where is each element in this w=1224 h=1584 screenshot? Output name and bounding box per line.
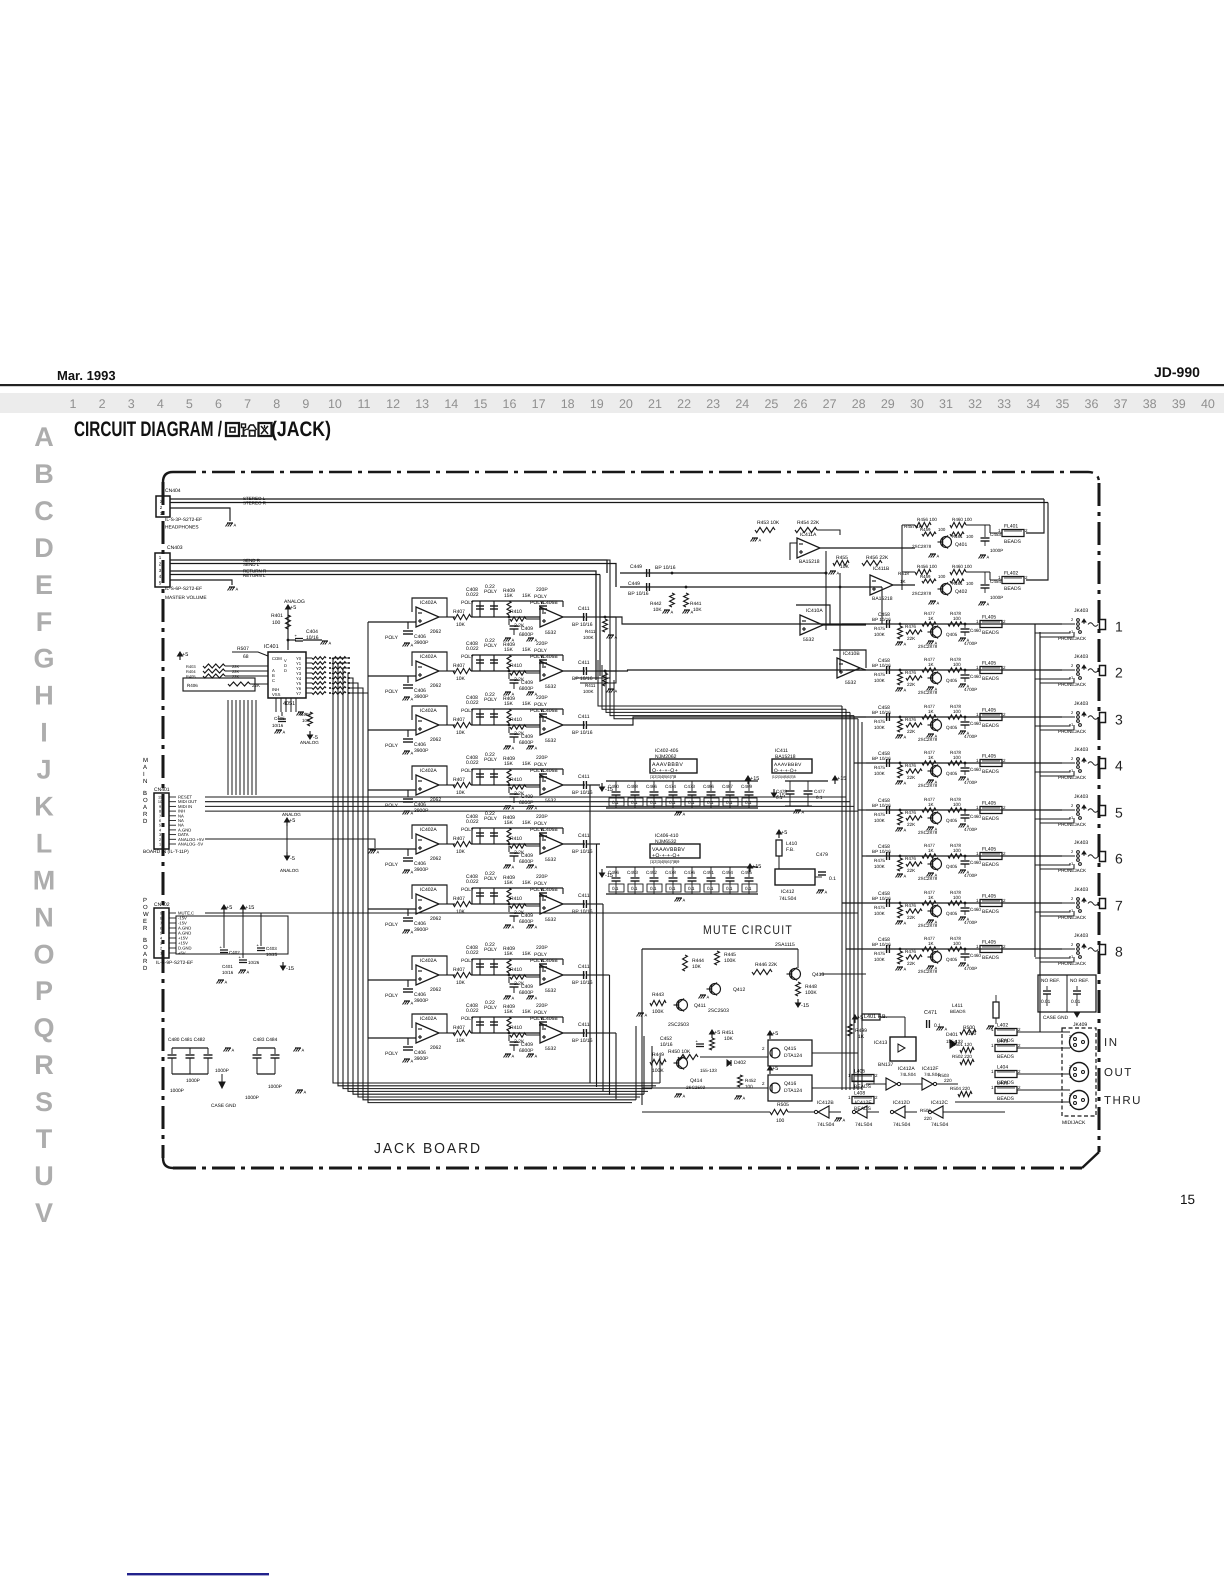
svg-text:26: 26 [794,397,808,411]
svg-text:1000P: 1000P [245,1095,259,1101]
svg-text:6: 6 [215,397,222,411]
svg-text:A: A [232,1048,235,1053]
svg-text:32: 32 [968,397,982,411]
svg-text:L: L [36,829,53,859]
svg-text:38: 38 [1143,397,1157,411]
svg-text:W: W [143,911,149,918]
svg-text:R456 22K: R456 22K [866,555,889,561]
svg-text:A: A [691,610,694,615]
svg-text:FL402: FL402 [1004,571,1018,577]
svg-text:10/25: 10/25 [266,952,278,957]
svg-text:1000P: 1000P [215,1068,229,1074]
svg-text:A: A [377,850,380,855]
svg-text:1000P: 1000P [990,595,1003,600]
svg-text:3: 3 [128,397,135,411]
svg-text:1: 1 [159,843,161,847]
svg-text:R450 10K: R450 10K [668,1049,691,1055]
svg-text:IC412B: IC412B [817,1100,834,1106]
svg-text:IC411A: IC411A [800,532,817,538]
svg-text:A: A [683,1094,686,1099]
svg-text:39: 39 [1172,397,1186,411]
svg-text:3: 3 [159,833,161,837]
svg-text:1: 1 [160,952,162,956]
svg-text:A: A [987,555,990,560]
svg-text:10/26: 10/26 [248,960,260,965]
svg-text:74LS04: 74LS04 [817,1122,834,1128]
svg-text:A: A [247,970,250,975]
svg-text:0.1: 0.1 [688,800,695,805]
svg-text:RETURN L: RETURN L [243,573,266,578]
svg-text:|1|2|3|4|5|6|7|8: |1|2|3|4|5|6|7|8 [772,775,795,779]
svg-text:+5: +5 [772,1066,778,1072]
svg-text:8: 8 [159,810,161,814]
svg-text:D: D [143,965,148,972]
svg-text:0.1: 0.1 [631,800,638,805]
svg-text:0.1: 0.1 [745,800,752,805]
svg-text:100: 100 [302,718,310,723]
svg-text:M: M [33,865,56,895]
svg-text:A: A [615,689,618,694]
svg-text:6: 6 [160,927,162,931]
svg-text:CIRCUIT DIAGRAM /: CIRCUIT DIAGRAM / [74,418,222,441]
svg-text:Q402: Q402 [955,589,967,595]
svg-text:B: B [34,459,54,489]
svg-text:2: 2 [159,838,161,842]
svg-text:Q411: Q411 [694,1003,706,1009]
svg-text:C449: C449 [628,581,640,587]
svg-text:100K: 100K [583,635,594,640]
svg-text:A: A [302,1048,305,1053]
svg-text:R453 10K: R453 10K [757,520,780,526]
svg-text:C471: C471 [924,1010,937,1016]
svg-text:R507: R507 [237,646,249,652]
svg-text:B: B [143,937,147,944]
svg-text:7: 7 [159,814,161,818]
svg-text:2SC2878: 2SC2878 [912,544,932,549]
svg-text:IC401: IC401 [264,644,279,650]
svg-text:Q412: Q412 [733,987,745,993]
svg-text:R460 100: R460 100 [952,517,972,522]
svg-text:R461: R461 [952,581,963,586]
svg-text:A: A [987,602,990,607]
svg-text:2SA1115: 2SA1115 [775,942,795,948]
svg-text:A: A [143,951,147,958]
svg-text:15: 15 [1180,1192,1195,1207]
svg-text:+5: +5 [290,605,296,611]
svg-text:2SC2503: 2SC2503 [668,1022,689,1028]
svg-text:C494: C494 [722,870,733,875]
svg-text:+15: +15 [837,776,846,782]
svg-text:Q415: Q415 [784,1046,796,1052]
svg-text:4: 4 [159,828,161,832]
svg-text:11: 11 [358,397,371,411]
svg-text:FL401: FL401 [1004,524,1018,530]
svg-text:A: A [329,641,332,646]
svg-text:7: 7 [244,397,251,411]
svg-text:IC412C: IC412C [931,1100,948,1106]
svg-text:4: 4 [160,937,162,941]
svg-text:AAAVBBBV: AAAVBBBV [774,762,802,768]
svg-text:A: A [945,1027,948,1032]
svg-text:10: 10 [328,397,342,411]
svg-text:R460 100: R460 100 [952,564,972,569]
svg-text:13: 13 [415,397,429,411]
svg-text:P: P [143,897,147,904]
svg-text:C490: C490 [608,784,619,789]
svg-text:BP 10/16: BP 10/16 [628,591,649,597]
svg-text:U: U [34,1161,54,1191]
svg-text:J: J [36,755,51,785]
svg-text:L408: L408 [854,1091,865,1097]
svg-text:C495: C495 [741,870,752,875]
svg-text:STEREO R: STEREO R [243,501,267,506]
svg-text:100: 100 [938,574,946,579]
svg-text:H: H [34,681,54,711]
svg-text:E: E [35,570,53,600]
svg-text:IC411B: IC411B [873,566,890,572]
svg-text:N: N [34,902,54,932]
svg-text:8: 8 [273,397,280,411]
svg-text:100K: 100K [724,958,736,964]
svg-text:R401: R401 [271,613,283,619]
svg-text:Y7: Y7 [296,691,302,696]
svg-text:A: A [837,571,840,576]
svg-text:IC412D: IC412D [893,1100,910,1106]
svg-text:11: 11 [158,796,162,800]
svg-text:155-133: 155-133 [700,1068,717,1073]
svg-text:100: 100 [966,534,974,539]
svg-text:S: S [35,1087,53,1117]
svg-text:CN403: CN403 [167,545,183,551]
svg-text:100: 100 [966,581,974,586]
svg-text:C474: C474 [665,784,676,789]
svg-text:E: E [143,918,147,925]
svg-text:A: A [683,812,686,817]
svg-text:2: 2 [99,397,106,411]
svg-text:VSS: VSS [272,692,281,697]
svg-text:0.1: 0.1 [612,800,619,805]
svg-text:IN: IN [1104,1037,1119,1049]
svg-text:74LS04: 74LS04 [900,1072,916,1077]
svg-text:220: 220 [944,1078,952,1083]
svg-text:O: O [143,904,148,911]
svg-text:14: 14 [444,397,458,411]
svg-text:A: A [743,1096,746,1101]
svg-text:10K: 10K [653,607,662,613]
svg-text:0.1: 0.1 [707,886,714,891]
svg-text:D: D [284,668,287,673]
svg-text:A: A [937,601,940,606]
svg-text:R: R [143,925,148,932]
svg-text:0.1: 0.1 [669,800,676,805]
svg-text:100K: 100K [652,1009,664,1015]
svg-text:10K: 10K [693,607,702,613]
svg-text:A: A [759,538,762,543]
svg-text:10/16: 10/16 [660,1042,673,1048]
svg-text:L402: L402 [997,1023,1008,1029]
svg-text:220: 220 [924,1116,932,1121]
svg-text:THRU: THRU [1104,1095,1142,1107]
svg-text:BA15218: BA15218 [799,559,820,565]
svg-text:R411: R411 [585,629,596,634]
svg-text:IC410A: IC410A [806,608,823,614]
svg-text:R406: R406 [187,683,198,688]
svg-text:BEADS: BEADS [854,1106,872,1112]
svg-text:7: 7 [1115,898,1123,914]
svg-text:2SC2878: 2SC2878 [912,591,932,596]
svg-text:Q413: Q413 [812,972,824,978]
svg-text:D: D [143,818,148,825]
svg-text:ANALOG: ANALOG [300,740,319,745]
svg-text:BP 10/16: BP 10/16 [655,565,676,571]
svg-text:C479: C479 [816,852,828,858]
svg-text:R441: R441 [690,601,702,607]
svg-text:9: 9 [302,397,309,411]
svg-text:100K: 100K [805,990,817,996]
svg-text:21: 21 [648,397,662,411]
svg-text:R411: R411 [585,683,596,688]
svg-text:A: A [843,1118,846,1123]
svg-text:OUT: OUT [1104,1067,1133,1079]
svg-text:C: C [272,678,275,683]
svg-text:-5: -5 [290,856,295,862]
svg-text:O: O [143,944,148,951]
svg-text:A: A [34,422,54,452]
svg-text:40: 40 [1201,397,1215,411]
svg-text:COM: COM [272,656,282,661]
svg-text:74LS04: 74LS04 [779,896,796,902]
svg-text:100: 100 [272,620,281,626]
svg-text:ANALOG -5V: ANALOG -5V [178,842,203,847]
svg-text:BEADS: BEADS [1004,539,1022,545]
svg-text:C403: C403 [266,946,277,951]
svg-text:SEND L: SEND L [243,562,260,567]
svg-text:L406: L406 [997,1081,1008,1087]
svg-text:18: 18 [561,397,575,411]
svg-text:5532: 5532 [845,680,856,686]
svg-text:CASE GND: CASE GND [1043,1015,1069,1021]
svg-text:A: A [683,898,686,903]
svg-text:R: R [34,1050,54,1080]
svg-text:BN137: BN137 [878,1062,894,1068]
svg-text:R: R [143,811,148,818]
svg-text:O-+-+-O+: O-+-+-O+ [774,768,797,774]
svg-text:C489: C489 [741,784,752,789]
svg-text:31: 31 [939,397,953,411]
svg-text:100: 100 [776,1118,785,1124]
svg-text:A: A [645,1013,648,1018]
svg-text:Mar. 1993: Mar. 1993 [57,368,116,383]
svg-text:33: 33 [997,397,1011,411]
svg-text:L403: L403 [997,1039,1008,1045]
svg-text:C483 C484: C483 C484 [253,1037,278,1043]
svg-text:R518: R518 [898,571,909,576]
svg-text:JD-990: JD-990 [1154,364,1200,380]
svg-text:23: 23 [706,397,720,411]
svg-text:2SC2503: 2SC2503 [708,1008,729,1014]
svg-text:R456 100: R456 100 [917,564,937,569]
svg-text:100K: 100K [652,1068,664,1074]
svg-text:17: 17 [532,397,546,411]
svg-text:T: T [36,1124,53,1154]
svg-text:A: A [707,995,710,1000]
svg-text:C480 C481 C482: C480 C481 C482 [168,1037,205,1043]
svg-text:M: M [143,757,148,764]
svg-text:NO REF.: NO REF. [1041,978,1060,984]
svg-text:0.1: 0.1 [650,886,657,891]
svg-text:35: 35 [1055,397,1069,411]
svg-text:0.01: 0.01 [1041,999,1051,1005]
svg-text:A: A [937,554,940,559]
svg-text:IL-S-6P-S2T2-EF: IL-S-6P-S2T2-EF [165,586,202,592]
svg-text:4: 4 [1115,758,1123,774]
svg-text:A: A [671,610,674,615]
svg-text:0.1: 0.1 [776,795,783,800]
svg-text:R449: R449 [652,1052,664,1058]
svg-text:HEADPHONES: HEADPHONES [165,525,199,531]
svg-text:C449: C449 [630,564,642,570]
svg-text:R: R [143,958,148,965]
svg-text:10/16: 10/16 [222,970,234,975]
svg-text:R461: R461 [952,534,963,539]
svg-text:R504 220: R504 220 [950,1086,970,1091]
svg-text:27: 27 [823,397,837,411]
svg-text:-15: -15 [286,966,294,972]
svg-text:2: 2 [1115,665,1123,681]
svg-text:K: K [34,792,54,822]
svg-text:MUTE CIRCUIT: MUTE CIRCUIT [703,923,793,937]
svg-text:CN401: CN401 [154,787,170,793]
svg-text:Q: Q [33,1013,54,1043]
svg-text:-15: -15 [801,1003,809,1009]
svg-text:R442: R442 [650,601,662,607]
svg-text:10K: 10K [724,1036,734,1042]
svg-text:22: 22 [677,397,691,411]
svg-text:29: 29 [881,397,895,411]
svg-text:R456 100: R456 100 [917,517,937,522]
svg-text:C492: C492 [646,870,657,875]
svg-text:BEADS: BEADS [1004,586,1022,592]
svg-text:G: G [33,644,54,674]
svg-text:Q401: Q401 [955,542,967,548]
svg-text:IC413: IC413 [874,1040,888,1046]
svg-text:R443: R443 [652,992,664,998]
svg-text:MASTER VOLUME: MASTER VOLUME [165,595,207,601]
svg-text:D: D [34,533,54,563]
svg-text:A: A [143,804,147,811]
svg-text:5532: 5532 [803,637,814,643]
svg-text:C486: C486 [703,784,714,789]
svg-text:R446 22K: R446 22K [755,962,778,968]
svg-text:F.B.: F.B. [786,847,795,853]
svg-text:100: 100 [938,527,946,532]
svg-text:C478: C478 [776,789,787,794]
svg-text:20: 20 [619,397,633,411]
svg-text:2: 2 [160,947,162,951]
svg-text:A: A [802,810,805,815]
svg-text:0.1: 0.1 [726,886,733,891]
svg-text:0.1: 0.1 [669,886,676,891]
svg-text:1: 1 [1115,619,1123,635]
svg-text:1000P: 1000P [268,1084,282,1090]
svg-text:C493: C493 [627,870,638,875]
svg-text:R501 120: R501 120 [952,1042,972,1047]
svg-text:0.1: 0.1 [688,886,695,891]
svg-text:0.1: 0.1 [650,800,657,805]
svg-text:|1|2|3|4|5|6|7|8: |1|2|3|4|5|6|7|8 [650,774,677,779]
svg-text:A: A [234,523,237,528]
svg-text:BEADS: BEADS [950,1009,966,1014]
svg-text:NO REF.: NO REF. [1070,978,1089,984]
svg-text:BEADS: BEADS [854,1084,872,1090]
svg-text:+5: +5 [182,652,188,658]
svg-text:0.1: 0.1 [745,886,752,891]
svg-text:+5: +5 [781,830,787,836]
svg-text:8: 8 [160,917,162,921]
svg-text:74LS04: 74LS04 [893,1122,910,1128]
svg-text:L404: L404 [997,1065,1008,1071]
svg-text:L405: L405 [854,1069,865,1075]
svg-text:0.01: 0.01 [1071,999,1081,1005]
svg-text:A: A [225,980,228,985]
svg-text:(JACK): (JACK) [271,418,331,441]
svg-text:P: P [35,976,53,1006]
svg-text:+5V: +5V [178,951,186,956]
svg-text:1000P: 1000P [186,1078,200,1084]
svg-text:19: 19 [590,397,604,411]
svg-text:|1|2|3|4|5|6|7|8|9: |1|2|3|4|5|6|7|8|9 [650,859,680,864]
svg-text:F: F [36,607,53,637]
svg-text:7: 7 [160,922,162,926]
svg-text:BEADS: BEADS [997,1096,1015,1102]
svg-text:24: 24 [735,397,749,411]
svg-text:100K: 100K [583,689,594,694]
svg-text:16: 16 [503,397,517,411]
svg-text:CASE GND: CASE GND [211,1103,237,1109]
svg-text:IC410B: IC410B [843,651,860,657]
svg-text:1000P: 1000P [170,1088,184,1094]
svg-text:0.1: 0.1 [816,795,823,800]
svg-text:R457 1K: R457 1K [904,524,923,529]
svg-text:C478: C478 [665,870,676,875]
svg-text:D401: D401 [946,1032,958,1038]
svg-text:0.1: 0.1 [726,800,733,805]
svg-text:25: 25 [764,397,778,411]
svg-text:C466: C466 [646,784,657,789]
svg-text:O: O [143,797,148,804]
svg-text:ANALOG: ANALOG [282,812,301,817]
svg-text:0.1: 0.1 [829,876,836,882]
svg-text:C401: C401 [222,964,233,969]
svg-text:0.1: 0.1 [612,886,619,891]
svg-text:JACK BOARD: JACK BOARD [374,1141,482,1157]
svg-text:R506: R506 [920,1108,931,1113]
svg-text:A: A [995,1026,998,1031]
svg-text:5: 5 [159,824,161,828]
svg-text:A: A [283,730,286,735]
svg-text:+5: +5 [226,905,232,911]
svg-text:CN402: CN402 [154,902,170,908]
svg-text:+5: +5 [772,1031,778,1037]
svg-text:C473: C473 [684,784,695,789]
svg-text:C477: C477 [814,789,825,794]
svg-text:+5: +5 [714,1030,720,1036]
svg-text:BEADS: BEADS [997,1054,1015,1060]
svg-text:IC412: IC412 [781,889,795,895]
svg-text:36: 36 [1085,397,1099,411]
svg-text:C476: C476 [684,870,695,875]
svg-text:5: 5 [1115,805,1123,821]
